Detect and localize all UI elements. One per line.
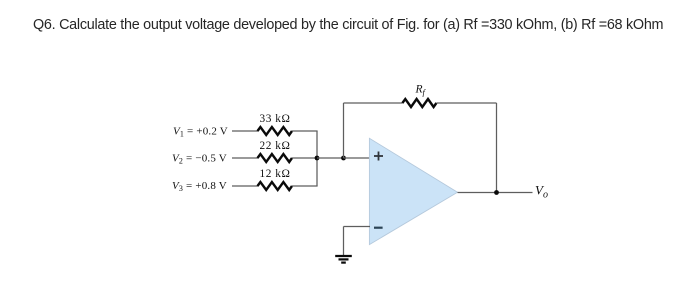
resistor Rf — [402, 99, 436, 107]
wire feedback top right segment — [436, 102, 496, 104]
source label V1 — [173, 126, 228, 139]
svg-text:33 kΩ: 33 kΩ — [260, 113, 291, 125]
junction output node — [494, 190, 499, 195]
source label V3 — [172, 180, 227, 193]
svg-text:Rf: Rf — [415, 84, 427, 97]
svg-text:V1 = +0.2 V: V1 = +0.2 V — [173, 126, 228, 139]
resistor R3 — [258, 182, 293, 190]
svg-text:12 kΩ: 12 kΩ — [260, 168, 291, 180]
wire V1 to R1 — [232, 130, 258, 132]
svg-text:22 kΩ: 22 kΩ — [260, 140, 291, 152]
wire R1 to bus — [292, 130, 318, 132]
bus wire vertical — [316, 131, 318, 186]
wire R2 to bus — [292, 157, 317, 159]
wire plus node to op-amp plus input — [344, 157, 371, 159]
svg-text:V3 = +0.8 V: V3 = +0.8 V — [172, 180, 227, 193]
wire V3 to R3 — [232, 185, 258, 187]
wire bus to plus node — [317, 157, 344, 159]
junction bus node — [315, 156, 320, 161]
wire feedback right vertical — [496, 103, 498, 193]
wire feedback left vertical — [343, 103, 345, 158]
op-amp U1 — [369, 138, 457, 244]
wire feedback top left segment — [344, 102, 403, 104]
ground — [335, 256, 352, 263]
svg-text:V2 = −0.5 V: V2 = −0.5 V — [172, 153, 227, 166]
source label V2 — [172, 153, 227, 166]
wire R3 to bus — [292, 185, 318, 187]
wire V2 to R2 — [232, 157, 258, 159]
svg-text:Vo: Vo — [535, 183, 548, 201]
resistor R2 — [258, 154, 293, 162]
wire minus input to ground — [343, 227, 345, 256]
wire output — [458, 192, 533, 194]
resistor R1 — [258, 127, 293, 135]
op-amp minus pin marker — [374, 227, 383, 229]
op-amp plus pin marker — [374, 152, 383, 161]
wire op-amp minus input — [344, 226, 371, 228]
title text — [33, 17, 663, 33]
junction plus node — [341, 156, 346, 161]
